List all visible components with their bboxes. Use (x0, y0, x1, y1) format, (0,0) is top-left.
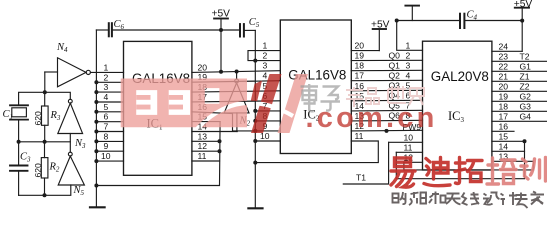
wire T1 input (343, 142, 388, 184)
svg-text:14: 14 (499, 141, 509, 151)
IC2 right pin numbers (355, 41, 365, 141)
junction ground bus / IC1 pin 9 (94, 149, 98, 153)
svg-text:1: 1 (406, 40, 411, 50)
junction ground bus / IC1 pin 2 (94, 80, 98, 84)
svg-text:19: 19 (355, 51, 365, 61)
wire IC2 clock corner pins 1-2 (248, 51, 280, 61)
svg-text:Q0: Q0 (389, 50, 401, 60)
svg-text:+5V: +5V (514, 0, 533, 10)
di (424, 159, 450, 186)
wire IC1 pin16 step to IC2 pin9 (192, 112, 280, 131)
wire IC3 right wrap 15-14-11 (396, 141, 524, 178)
junction osc mid rail / R3-R2 (43, 140, 47, 144)
watermark bottom gray text shepin... (393, 192, 545, 209)
svg-text:13: 13 (198, 131, 208, 141)
watermark faint chanpinshijie (346, 86, 424, 107)
junction wrap bus / IC1 pin 12 (218, 149, 222, 153)
watermark EEPW pink letters (121, 74, 308, 133)
wire IC2 pin20 stub (351, 50, 379, 52)
svg-text:Q2: Q2 (389, 70, 401, 80)
wire IC1 right wrap to ground (96, 122, 220, 186)
she (393, 192, 406, 204)
junction ground bus / IC1 pin 4 (94, 100, 98, 104)
svg-text:10: 10 (101, 151, 111, 161)
svg-text:T1: T1 (356, 173, 366, 183)
power +5V symbol 3 top right (515, 8, 529, 52)
svg-text:20: 20 (198, 62, 208, 72)
wire top +5V rail with C6 C5 (96, 29, 107, 31)
svg-text:23: 23 (499, 51, 509, 61)
wire top right rail with C4 (397, 20, 459, 22)
junction ground bus / IC1 pin 3 (94, 90, 98, 94)
junction ground bus / IC1 wrap return (94, 184, 98, 188)
svg-text:20: 20 (499, 81, 509, 91)
svg-text:GAL20V8: GAL20V8 (431, 69, 489, 84)
yi (395, 158, 411, 167)
svg-text:Z2: Z2 (520, 81, 530, 91)
inverter N2 (224, 72, 249, 132)
IC1 left pin numbers (101, 62, 111, 161)
wire middle ground bus (254, 30, 256, 208)
svg-text:T2: T2 (520, 51, 530, 61)
watermark yidituo red chars (391, 158, 546, 188)
svg-text:21: 21 (499, 71, 509, 81)
watermark dianzi gray chars (301, 84, 341, 111)
svg-text:3: 3 (263, 61, 268, 71)
svg-text:2: 2 (263, 51, 268, 61)
junction ground bus / IC1 pin 8 (94, 139, 98, 143)
svg-text:16: 16 (499, 121, 509, 131)
junction +5V / top right rail (520, 19, 524, 23)
junction ground bus / IC1 pin 7 (94, 130, 98, 134)
svg-text:Z1: Z1 (520, 71, 530, 81)
svg-text:18: 18 (355, 61, 365, 71)
wire IC1-IC2 cross lines (192, 71, 280, 73)
IC1 GAL16V8 box (124, 41, 192, 175)
svg-text:2: 2 (104, 72, 109, 82)
he (429, 192, 446, 205)
inverter N3 (58, 99, 83, 152)
svg-text:11: 11 (198, 151, 207, 161)
junction mid ground bus / IC2 pin 11 wrap (253, 161, 257, 165)
junction osc mid rail / C1-C3 (17, 140, 21, 144)
IC3 left pin numbers (404, 40, 414, 162)
junction ground bus / IC1 pin 10 (94, 159, 98, 163)
junction ground bus / IC1 pin 5 (94, 110, 98, 114)
ground bar left (90, 206, 105, 208)
svg-text:G4: G4 (520, 111, 532, 121)
junction mid ground bus / IC2 pin 9 (253, 129, 257, 133)
svg-text:G1: G1 (520, 61, 532, 71)
junction N2 stub / line 20-3 (235, 70, 239, 74)
svg-text:Q1: Q1 (389, 60, 401, 70)
wire IC1 pins 13 12 11 to wrap (192, 140, 220, 142)
svg-text:22: 22 (499, 61, 509, 71)
IC3 right net labels (520, 51, 532, 121)
junction +5V rail / C6-C5 rail (219, 28, 223, 32)
wire IC3 pin1 drop (397, 21, 423, 51)
IC2 left pin numbers (260, 41, 270, 141)
wire oscillator top rail (19, 92, 71, 104)
svg-text:17: 17 (499, 111, 509, 121)
capacitor C1 crystal (10, 105, 28, 142)
svg-text:9: 9 (104, 141, 109, 151)
wire IC3 left pins 10 11 12 (389, 141, 423, 143)
xian (462, 192, 479, 205)
junction osc rail / R3 / N4 input (43, 90, 47, 94)
svg-text:620: 620 (33, 111, 43, 126)
svg-text:20: 20 (355, 41, 365, 51)
wire oscillator bottom rail (19, 185, 71, 195)
she2 (483, 193, 500, 205)
svg-text:4: 4 (104, 92, 109, 102)
svg-text:4: 4 (263, 71, 268, 81)
pei (487, 158, 499, 184)
power +5V symbol 2 (373, 29, 386, 51)
junction top right rail / IC3 pin 1 drop (395, 19, 399, 23)
capacitor C4 (460, 14, 464, 28)
wire IC1 pin15 stub (192, 121, 220, 123)
svg-text:5: 5 (104, 102, 109, 112)
junction node PW on IC2 pin 12 line (385, 129, 389, 133)
wire IC3 right rows T2..G4 (492, 60, 547, 62)
junction mid ground bus / IC2 pin 2 (253, 59, 257, 63)
wire IC2 pin11 to ground wrap (255, 141, 378, 163)
capacitor C5 (240, 24, 244, 36)
svg-text:.com.cn: .com.cn (306, 102, 438, 134)
wire oscillator middle rail (19, 141, 71, 143)
resistor R2 (41, 142, 48, 196)
svg-text:7: 7 (104, 122, 109, 132)
wire IC3 right wrap 13-12 (404, 161, 534, 170)
capacitor C6 (109, 23, 112, 36)
junction IC3 pin 15 / wrap (523, 139, 527, 143)
svg-text:4: 4 (406, 70, 411, 80)
power +5V symbol 1 (214, 19, 228, 72)
wire IC3 right stubs 16-13 (492, 130, 514, 132)
svg-text:G2: G2 (520, 91, 532, 101)
junction wrap bus / IC1 pin 13 (218, 139, 222, 143)
svg-text:+5V: +5V (371, 20, 390, 31)
junction +5V drop / IC1 pin 20 line (219, 70, 223, 74)
wire N4 input drop (44, 72, 46, 92)
wire IC1 ground bus (95, 30, 97, 207)
IC2-IC3 net labels (389, 50, 422, 132)
svg-text:G3: G3 (520, 101, 532, 111)
junction osc bottom rail / R2 (43, 193, 47, 197)
svg-text:+5V: +5V (212, 9, 231, 20)
IC3 right pin numbers (499, 41, 509, 161)
power bar symbol top (405, 6, 419, 21)
pin (409, 192, 426, 205)
zhuan (515, 193, 528, 209)
junction mid ground bus / IC2 pin 10 (253, 139, 257, 143)
svg-text:17: 17 (355, 71, 365, 81)
tian (446, 194, 461, 205)
inverter N4 (45, 58, 124, 87)
junction mid ground bus / IC2 pin 7 (253, 109, 257, 113)
svg-text:11: 11 (404, 142, 413, 152)
resistor R3 (42, 92, 49, 142)
wire IC2 pin10 from bus (255, 140, 280, 142)
svg-text:3: 3 (406, 60, 411, 70)
svg-text:1: 1 (104, 62, 109, 72)
IC2 GAL16V8 box (280, 20, 351, 154)
svg-text:1: 1 (263, 41, 268, 51)
svg-text:19: 19 (499, 91, 509, 101)
svg-text:2: 2 (406, 50, 411, 60)
svg-text:12: 12 (198, 141, 208, 151)
svg-text:24: 24 (499, 41, 509, 51)
xun (521, 159, 528, 179)
wire IC1 left pins 2-10 (96, 82, 123, 161)
ji (501, 192, 518, 205)
ground bar middle (248, 207, 262, 209)
svg-text:3: 3 (104, 82, 109, 92)
wire IC2-IC3 Q lines (351, 59, 422, 61)
watermark W red-pink two tone (251, 74, 309, 133)
svg-text:6: 6 (104, 112, 109, 122)
svg-text:8: 8 (104, 131, 109, 141)
wire IC3 pin24 stub (492, 50, 522, 52)
svg-text:620: 620 (33, 163, 43, 178)
IC1 right pin numbers (198, 62, 208, 161)
junction mid ground bus / IC2 pin 8 (253, 119, 257, 123)
capacitor C3 (10, 142, 28, 196)
IC3 GAL20V8 box (423, 41, 492, 170)
tuo (455, 158, 465, 184)
inverter N5 (58, 152, 84, 185)
jia (531, 192, 545, 205)
svg-text:18: 18 (499, 101, 509, 111)
junction ground bus / IC1 pin 6 (94, 120, 98, 124)
wire IC2 pins 7 8 from bus (255, 110, 280, 112)
wire IC1 pin14 stub (192, 131, 237, 133)
svg-text:15: 15 (499, 131, 509, 141)
